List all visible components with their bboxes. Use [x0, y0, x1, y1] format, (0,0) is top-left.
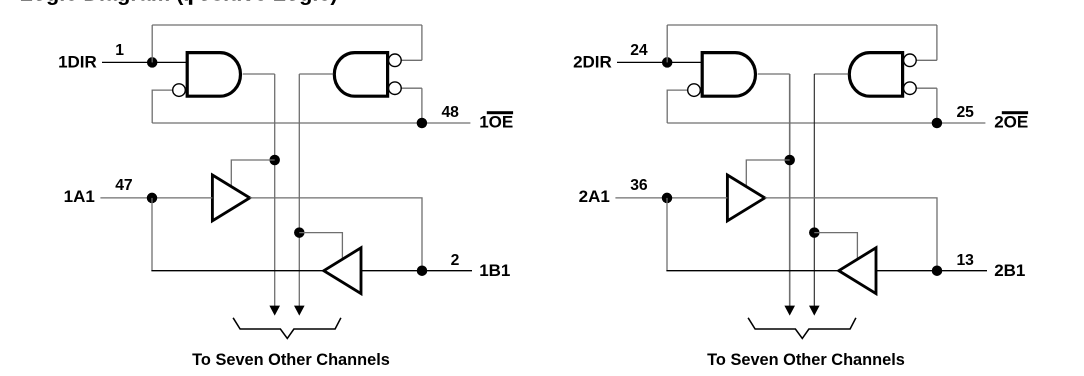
- and gate U1A: [187, 53, 240, 97]
- svg-text:1A1: 1A1: [64, 187, 95, 206]
- wire top loop horizontal: [667, 24, 937, 26]
- node 1B1 junction: [417, 265, 428, 276]
- node enable A junction: [784, 155, 795, 166]
- wire enable tap to buffer A: [231, 160, 274, 187]
- wire top loop horizontal: [152, 24, 422, 26]
- svg-text:1B1: 1B1: [479, 261, 510, 280]
- bubble U1B upper input: [389, 54, 402, 67]
- node enable B junction: [294, 227, 305, 238]
- wire U2A output: [758, 73, 790, 75]
- wire A rail down: [666, 198, 668, 271]
- svg-text:1OE: 1OE: [479, 112, 513, 131]
- wire enable tap to buffer B: [299, 233, 342, 260]
- wire left rail up from 2DIR: [666, 25, 668, 62]
- svg-text:Logic Diagram (Positive Logic): Logic Diagram (Positive Logic): [20, 0, 338, 5]
- svg-text:2: 2: [451, 252, 460, 269]
- bubble U2B upper input: [904, 54, 917, 67]
- wire 2A1 input stub: [615, 197, 727, 199]
- wire U1B output: [299, 73, 333, 75]
- node enable B junction: [809, 227, 820, 238]
- wire U2B output: [814, 73, 848, 75]
- svg-text:2DIR: 2DIR: [573, 53, 612, 72]
- node enable A junction: [269, 155, 280, 166]
- overbar OE: [1002, 111, 1028, 114]
- wire A rail down: [151, 198, 153, 271]
- overbar OE: [487, 111, 513, 114]
- arrowhead rail B: [294, 306, 305, 316]
- wire right rail down to OE line: [936, 88, 938, 123]
- node 1OE junction: [417, 118, 428, 129]
- bubble U1A lower input: [173, 84, 186, 97]
- bubble U2A lower input: [688, 84, 701, 97]
- wire U1A output: [243, 73, 275, 75]
- brace to other channels: [748, 318, 856, 339]
- wire right rail top: [936, 25, 938, 60]
- buffer A to B: [727, 175, 764, 221]
- wire to U1B top bubble: [401, 59, 422, 61]
- wire 2B1 line right: [876, 270, 987, 272]
- wire 1DIR input stub: [102, 61, 188, 63]
- wire left rail up from 1DIR: [151, 25, 153, 62]
- buffer B to A: [839, 248, 876, 294]
- svg-text:24: 24: [630, 42, 648, 59]
- wire 1OE line: [152, 122, 470, 124]
- wire 2OE line: [667, 122, 985, 124]
- svg-text:1DIR: 1DIR: [58, 53, 97, 72]
- wire enable rail A: [789, 74, 791, 306]
- node 2OE junction: [932, 118, 943, 129]
- buffer B to A: [324, 248, 361, 294]
- wire enable tap to buffer B: [814, 233, 857, 260]
- and gate U2B (mirrored): [849, 53, 902, 97]
- wire from U2B bottom bubble: [916, 87, 937, 89]
- svg-text:36: 36: [630, 177, 648, 194]
- wire buffer A output to B1: [250, 198, 422, 271]
- svg-text:13: 13: [956, 252, 974, 269]
- svg-text:1: 1: [115, 42, 124, 59]
- wire right rail top: [421, 25, 423, 60]
- wire right rail down to OE line: [421, 88, 423, 123]
- node 1DIR junction: [147, 57, 158, 68]
- wire enable rail B: [813, 74, 815, 306]
- wire enable tap to buffer A: [746, 160, 789, 187]
- wire enable rail A: [274, 74, 276, 306]
- node 2A1 junction: [662, 193, 673, 204]
- wire U1A bubble feedback: [152, 90, 173, 123]
- and gate U1B (mirrored): [334, 53, 387, 97]
- wire enable rail B: [298, 74, 300, 306]
- svg-text:48: 48: [441, 104, 459, 121]
- svg-text:2A1: 2A1: [579, 187, 610, 206]
- and gate U2A: [702, 53, 755, 97]
- wire U2A bubble feedback: [667, 90, 688, 123]
- wire 1A1 input stub: [100, 197, 212, 199]
- wire 1B1 line left: [151, 270, 323, 272]
- arrowhead rail B: [809, 306, 820, 316]
- arrowhead rail A: [269, 306, 280, 316]
- node 1A1 junction: [147, 193, 158, 204]
- wire 1B1 line right: [361, 270, 472, 272]
- buffer A to B: [212, 175, 249, 221]
- brace to other channels: [233, 318, 341, 339]
- node 2DIR junction: [662, 57, 673, 68]
- wire buffer A output to B1: [765, 198, 937, 271]
- svg-text:47: 47: [115, 177, 133, 194]
- wire 2DIR input stub: [617, 61, 703, 63]
- svg-text:25: 25: [956, 104, 974, 121]
- svg-text:2OE: 2OE: [994, 112, 1028, 131]
- wire 2B1 line left: [666, 270, 838, 272]
- bubble U2B lower input: [904, 82, 917, 95]
- wire to U2B top bubble: [916, 59, 937, 61]
- bubble U1B lower input: [389, 82, 402, 95]
- node 2B1 junction: [932, 265, 943, 276]
- wire from U1B bottom bubble: [401, 87, 422, 89]
- svg-text:To Seven Other Channels: To Seven Other Channels: [192, 351, 390, 369]
- svg-text:To Seven Other Channels: To Seven Other Channels: [707, 351, 905, 369]
- title descender P: [189, 0, 192, 5]
- svg-text:2B1: 2B1: [994, 261, 1025, 280]
- arrowhead rail A: [784, 306, 795, 316]
